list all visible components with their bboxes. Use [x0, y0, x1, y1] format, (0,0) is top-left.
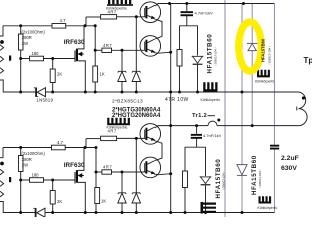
svg-text:Kühlkörperbl.: Kühlkörperbl.	[255, 79, 275, 83]
svg-text:180: 180	[32, 173, 40, 178]
svg-text:(2x100Ohm): (2x100Ohm)	[22, 29, 46, 34]
svg-text:4R7: 4R7	[103, 165, 112, 170]
svg-text:/ DB913-104 /: / DB913-104 /	[222, 170, 226, 191]
svg-text:180: 180	[32, 51, 40, 56]
svg-text:Tp: Tp	[304, 56, 313, 65]
svg-text:630V: 630V	[281, 165, 297, 172]
svg-text:280R: 280R	[22, 35, 32, 40]
svg-text:/ DB913-104 /: / DB913-104 /	[214, 46, 218, 67]
svg-text:2*HGTG20N60A4: 2*HGTG20N60A4	[112, 113, 161, 119]
svg-text:IRF630: IRF630	[64, 39, 85, 46]
svg-text:4.7nF/1kV: 4.7nF/1kV	[203, 133, 222, 138]
svg-text:4.7: 4.7	[57, 140, 64, 145]
svg-text:Kühlkörperbl.: Kühlkörperbl.	[258, 206, 278, 210]
svg-text:/ DB913-104 /: / DB913-104 /	[258, 168, 262, 189]
svg-text:47R 10W: 47R 10W	[165, 97, 189, 103]
svg-text:1K: 1K	[100, 72, 105, 77]
svg-text:4.7nF/1kV: 4.7nF/1kV	[195, 11, 214, 16]
svg-text:Kühlkörperble.: Kühlkörperble.	[107, 126, 129, 130]
svg-text:4.7: 4.7	[60, 18, 67, 23]
svg-text:2*BZX85C13: 2*BZX85C13	[112, 98, 143, 104]
svg-text:2K: 2K	[57, 199, 62, 204]
svg-text:2K: 2K	[57, 72, 62, 77]
svg-text:IRF630: IRF630	[64, 162, 85, 169]
svg-text:HFA15TB60: HFA15TB60	[207, 34, 214, 74]
svg-text:Kühlkörperbl.: Kühlkörperbl.	[201, 98, 221, 102]
svg-text:2W: 2W	[22, 162, 28, 167]
svg-text:Kühlkörperble.: Kühlkörperble.	[106, 6, 128, 10]
svg-text:2.2uF: 2.2uF	[281, 155, 299, 162]
svg-text:/ DB913-104 /: / DB913-104 /	[268, 45, 272, 66]
svg-text:Tr1.2: Tr1.2	[192, 113, 207, 119]
svg-text:1K: 1K	[101, 199, 106, 204]
svg-text:4R7: 4R7	[103, 43, 112, 48]
svg-text:HFA15TB60: HFA15TB60	[261, 38, 266, 62]
svg-text:2W: 2W	[22, 41, 28, 46]
svg-text:280R: 280R	[22, 157, 32, 162]
svg-text:(2x100Ohm): (2x100Ohm)	[22, 151, 46, 156]
svg-text:1N5819: 1N5819	[37, 98, 54, 103]
svg-text:HFA15TB60: HFA15TB60	[251, 155, 258, 195]
